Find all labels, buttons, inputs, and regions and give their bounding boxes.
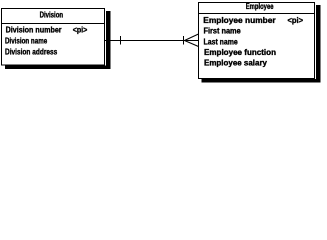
crow's foot lower branch	[185, 41, 199, 47]
svg-text:Employee number: Employee number	[203, 16, 275, 25]
svg-text:Division address: Division address	[5, 48, 58, 57]
entity Division box	[2, 9, 105, 66]
entity Division shadow	[5, 11, 111, 69]
svg-text:Employee: Employee	[246, 2, 274, 11]
svg-text:Last name: Last name	[204, 37, 239, 46]
wire relationship line Division-Employee	[105, 40, 198, 42]
svg-text:Division: Division	[40, 11, 64, 20]
svg-text:<pi>: <pi>	[288, 16, 304, 25]
svg-text:<pi>: <pi>	[73, 26, 88, 35]
svg-text:Employee function: Employee function	[204, 48, 276, 57]
entity Employee shadow	[202, 5, 321, 83]
cardinality tick near Employee	[183, 36, 185, 45]
entity Employee box	[199, 3, 315, 79]
svg-text:First name: First name	[204, 27, 242, 36]
entity Division title separator	[1, 23, 105, 25]
crow's foot upper branch	[185, 34, 199, 41]
svg-text:Employee salary: Employee salary	[204, 59, 268, 68]
svg-text:Division name: Division name	[5, 37, 48, 46]
entity Employee title separator	[198, 13, 315, 15]
cardinality tick near Division	[120, 36, 122, 45]
svg-text:Division number: Division number	[6, 26, 62, 35]
